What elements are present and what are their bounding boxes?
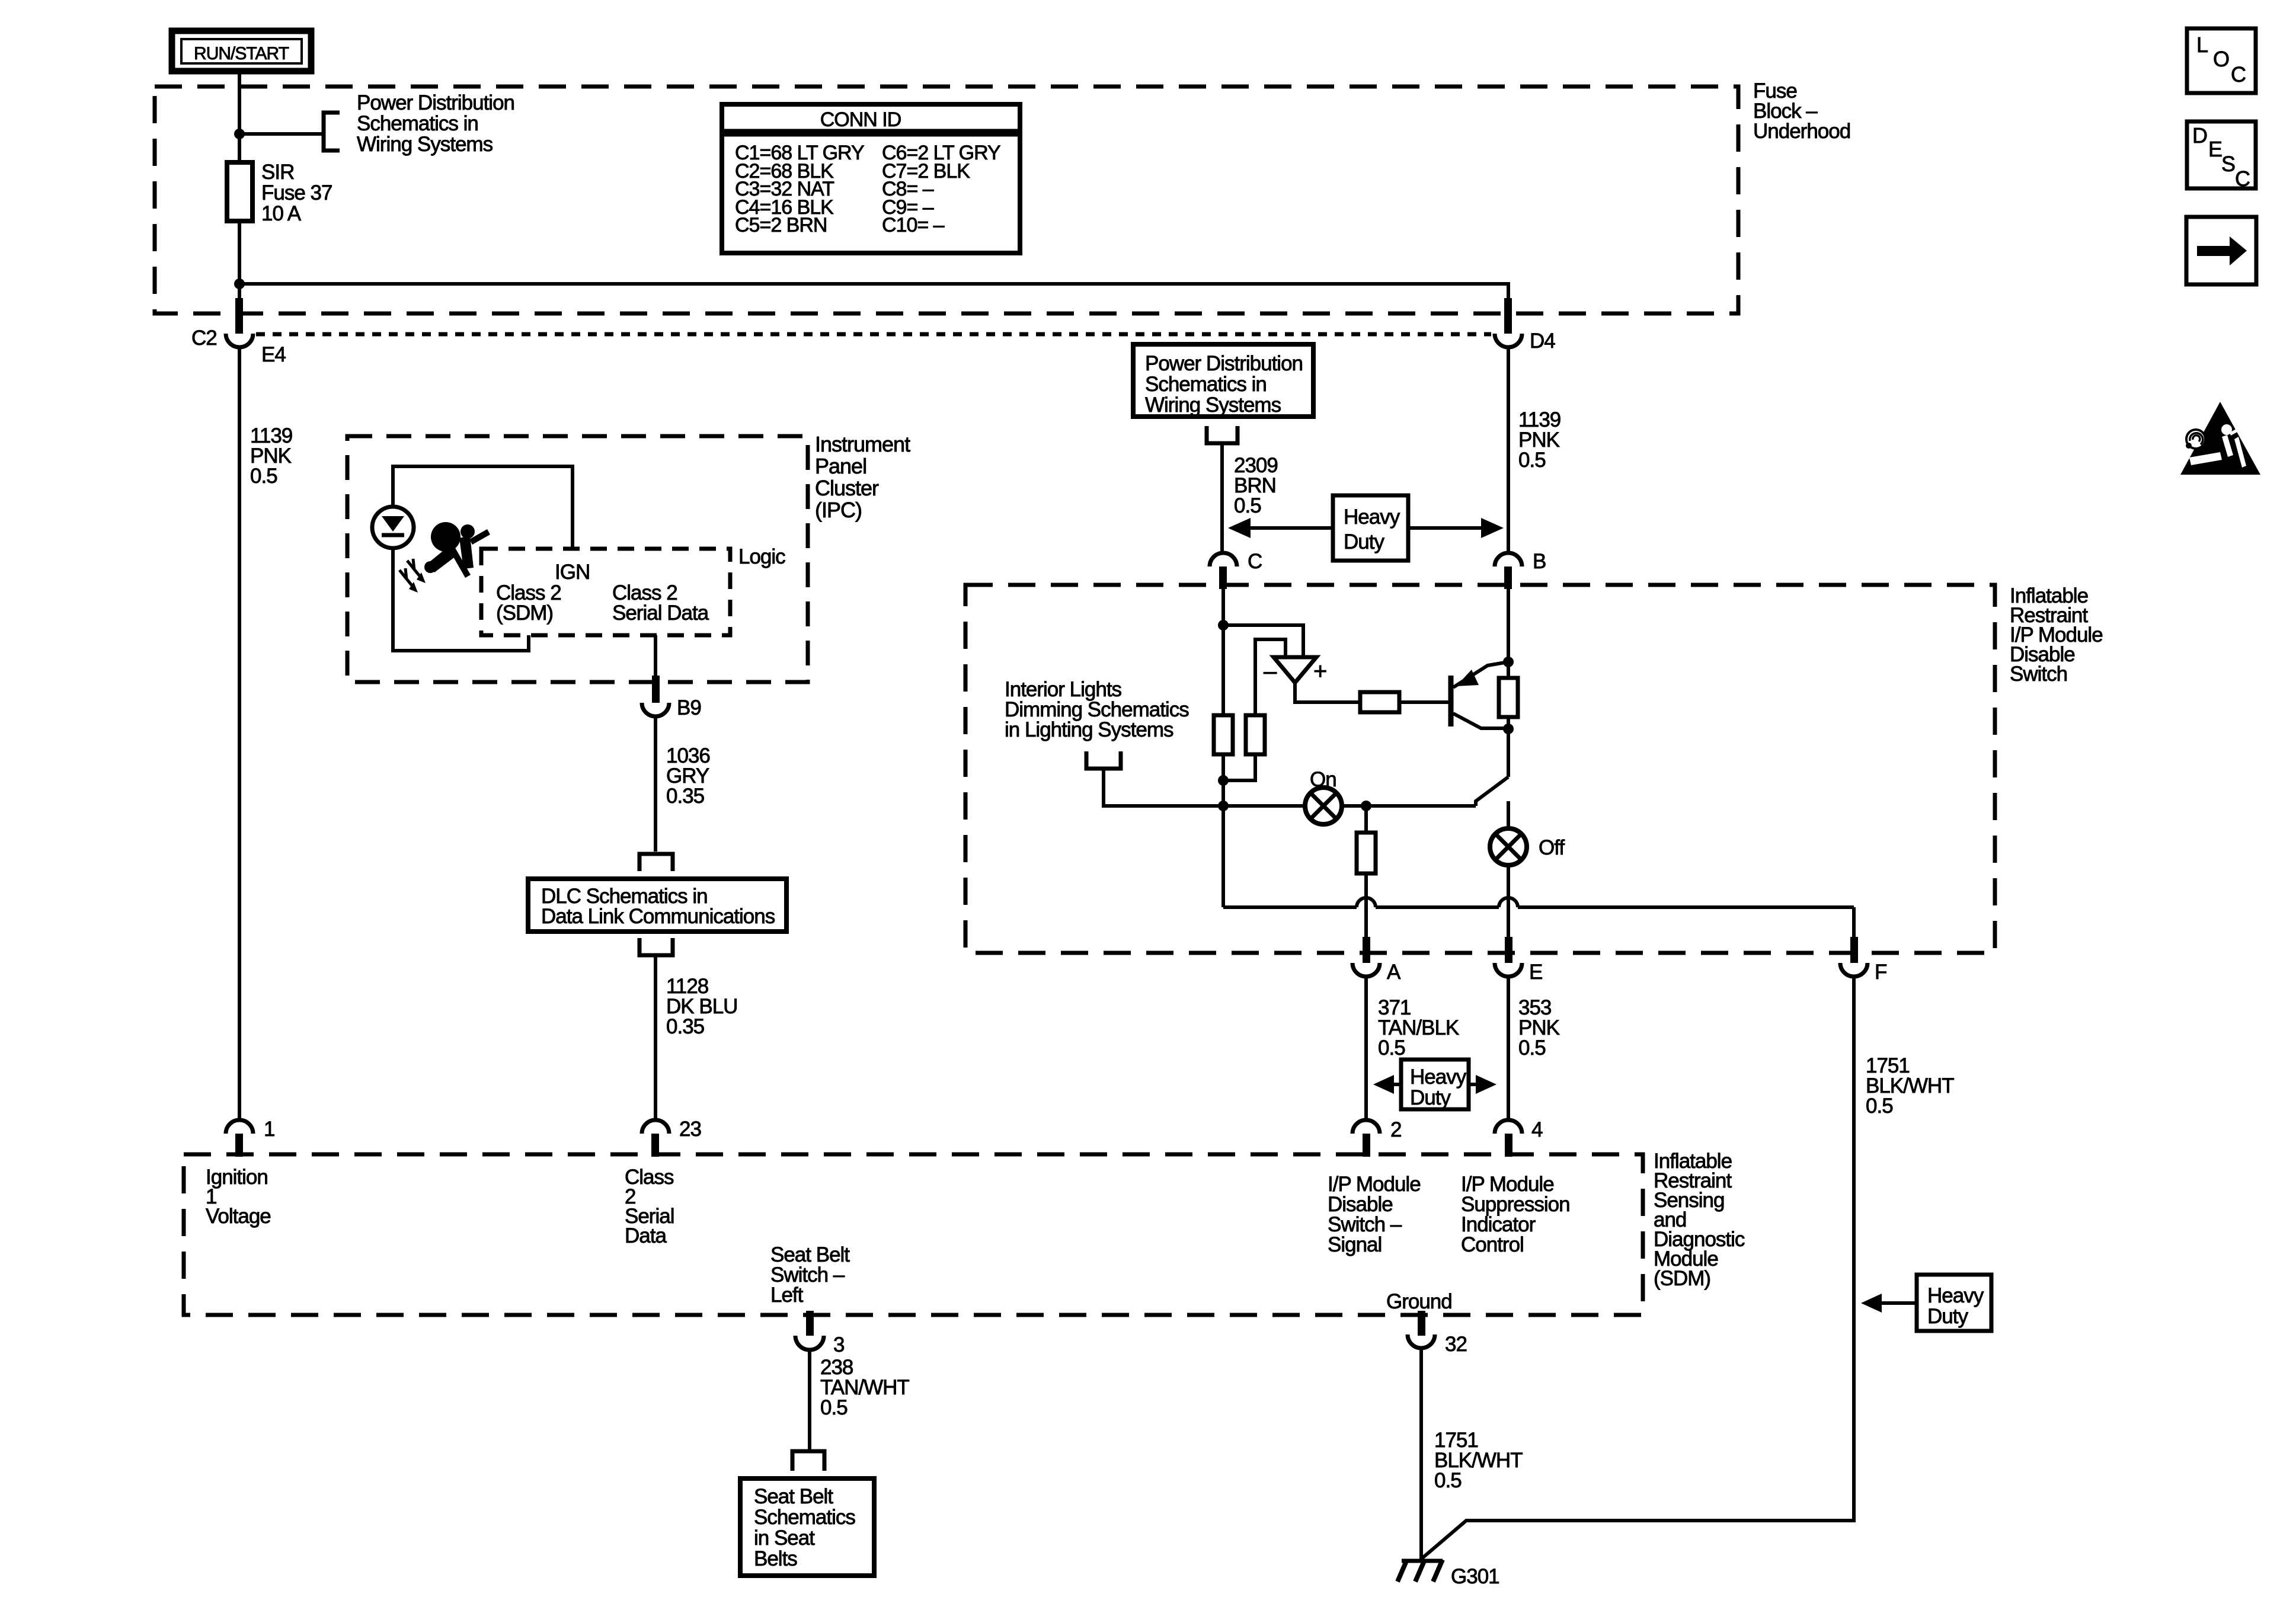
wire: fuse to connector C2 bbox=[238, 221, 241, 316]
page link bracket above seat belt box bbox=[792, 1451, 824, 1471]
svg-text:0.5: 0.5 bbox=[1518, 449, 1546, 472]
svg-text:in Lighting Systems: in Lighting Systems bbox=[1005, 718, 1173, 741]
indicator lamp Off bbox=[1490, 828, 1565, 865]
label: Interior Lights Dimming Schematics in Lighting Systems bbox=[1005, 678, 1189, 741]
wire: 1036 GRY 0.35 bbox=[654, 716, 657, 852]
svg-text:Wiring Systems: Wiring Systems bbox=[1145, 393, 1281, 417]
label: Fuse Block - Underhood bbox=[1753, 79, 1850, 143]
wire C inside switch box bbox=[1221, 589, 1225, 715]
wire: 238 TAN/WHT 0.5 bbox=[808, 1350, 811, 1451]
svg-text:in Seat: in Seat bbox=[754, 1526, 815, 1550]
resistor R2 (comparator input) bbox=[1246, 715, 1265, 754]
heavy duty callout box (upper) bbox=[1228, 495, 1504, 561]
svg-text:0.35: 0.35 bbox=[666, 785, 704, 808]
wire: connector F 1751 BLK/WHT 0.5 down to ground bbox=[1422, 977, 1854, 1558]
svg-text:0.5: 0.5 bbox=[1378, 1036, 1405, 1060]
junction On line to R5 bbox=[1361, 801, 1371, 811]
svg-text:C5=2 BRN: C5=2 BRN bbox=[735, 214, 827, 236]
svg-text:23: 23 bbox=[679, 1118, 701, 1141]
label: Instrument Panel Cluster (IPC) bbox=[815, 432, 910, 522]
wire: Off lamp to connector E bbox=[1507, 865, 1510, 939]
svg-text:Heavy: Heavy bbox=[1410, 1065, 1467, 1089]
junction collector on wire B bbox=[1503, 657, 1514, 667]
wire: R4 to switch blade bbox=[1507, 717, 1510, 777]
svg-text:O: O bbox=[2213, 47, 2229, 71]
svg-text:4: 4 bbox=[1531, 1118, 1543, 1141]
junction at feed bus bbox=[234, 279, 245, 289]
dotted connector row line C2 to D4 bbox=[256, 332, 1491, 337]
inflatable restraint I/P module disable switch dashed box bbox=[965, 585, 1995, 953]
indicator lamp On bbox=[1305, 768, 1342, 824]
wire B inside switch box bbox=[1507, 589, 1510, 678]
connector pin 23 at SDM bbox=[642, 1118, 701, 1157]
svg-text:Logic: Logic bbox=[738, 545, 785, 568]
connector C2 / E4 at fuse block output bbox=[191, 298, 286, 366]
junction C to R2 return bbox=[1218, 775, 1229, 786]
svg-text:Duty: Duty bbox=[1927, 1305, 1968, 1328]
resistor R5 (disable switch signal) bbox=[1357, 833, 1376, 873]
svg-text:(SDM): (SDM) bbox=[496, 601, 553, 625]
wire: interior lights to On lamp line bbox=[1104, 769, 1305, 806]
ground G301 bbox=[1398, 1560, 1499, 1588]
arrow to wire C bbox=[1242, 526, 1333, 530]
op-amp comparator U1 bbox=[1264, 657, 1326, 684]
resistor R3 (base drive) bbox=[1360, 692, 1399, 712]
svg-text:Schematics in: Schematics in bbox=[357, 112, 478, 135]
wire: Class 2 serial data out of logic box bbox=[654, 635, 657, 689]
wire: comparator plus input bbox=[1223, 625, 1303, 659]
wire: 1128 DK BLU 0.35 bbox=[654, 955, 657, 1121]
svg-text:Data Link Communications: Data Link Communications bbox=[541, 905, 775, 928]
wire: common return line to connector F with hops bbox=[1223, 806, 1854, 943]
svg-text:0.5: 0.5 bbox=[1234, 494, 1261, 517]
wire: R2 bottom to wire C bbox=[1223, 754, 1255, 780]
wire: R3 to transistor base bbox=[1399, 700, 1448, 704]
svg-text:0.5: 0.5 bbox=[1866, 1094, 1893, 1118]
svg-text:C: C bbox=[2231, 62, 2246, 87]
connector pin 2 at SDM bbox=[1352, 1118, 1401, 1157]
svg-text:C: C bbox=[1248, 550, 1262, 573]
svg-text:1: 1 bbox=[264, 1118, 274, 1141]
page link bracket below power distribution box bbox=[1207, 426, 1237, 443]
icon box forward arrow bbox=[2186, 217, 2256, 284]
svg-text:+: + bbox=[1313, 658, 1326, 684]
svg-text:Power Distribution: Power Distribution bbox=[1145, 352, 1303, 375]
wire: RUN/START down to junction bbox=[238, 71, 241, 162]
label: I/P Module Disable Switch - Signal bbox=[1328, 1173, 1421, 1256]
svg-text:C2: C2 bbox=[191, 327, 217, 350]
connector pin 4 at SDM bbox=[1495, 1118, 1543, 1157]
svg-text:E: E bbox=[2208, 137, 2222, 161]
svg-text:RUN/START: RUN/START bbox=[194, 44, 289, 63]
junction emitter on wire B bbox=[1503, 724, 1514, 734]
connector pin 32 below SDM box (ground) bbox=[1408, 1311, 1467, 1356]
svg-text:Schematics: Schematics bbox=[754, 1506, 855, 1529]
switch blade (module disable switch) bbox=[1476, 777, 1508, 806]
label: Power Distribution Schematics in Wiring Systems bbox=[357, 91, 514, 156]
heavy duty callout box (lower right) bbox=[1861, 1275, 1991, 1331]
page link bracket below DLC box bbox=[639, 938, 673, 955]
label: Seat Belt Switch - Left bbox=[770, 1243, 850, 1307]
svg-text:Underhood: Underhood bbox=[1753, 120, 1850, 143]
connector B at disable switch bbox=[1495, 550, 1546, 589]
airbag warning pictograph bbox=[424, 522, 490, 578]
svg-text:3: 3 bbox=[833, 1333, 844, 1356]
svg-text:IGN: IGN bbox=[555, 561, 590, 584]
svg-text:0.5: 0.5 bbox=[820, 1396, 848, 1419]
svg-text:Heavy: Heavy bbox=[1927, 1284, 1984, 1307]
svg-text:G301: G301 bbox=[1451, 1565, 1499, 1588]
junction C on lamp line bbox=[1218, 801, 1229, 811]
resistor R4 (on wire B) bbox=[1499, 678, 1518, 717]
wire: On lamp line bbox=[1342, 804, 1476, 808]
svg-text:Serial Data: Serial Data bbox=[612, 601, 709, 625]
junction C to comparator bbox=[1218, 620, 1229, 631]
CONN ID table bbox=[722, 104, 1020, 253]
heavy duty callout box (middle) bbox=[1373, 1060, 1496, 1109]
svg-text:Cluster: Cluster bbox=[815, 476, 879, 500]
page link bracket (power distribution feed) bbox=[324, 113, 340, 151]
pin label Class 2 (SDM) bbox=[496, 581, 561, 625]
page link bracket above DLC box bbox=[639, 854, 673, 871]
switch RUN/START ignition feed box bbox=[172, 31, 311, 71]
connector F at switch box bottom bbox=[1840, 937, 1886, 984]
svg-text:0.35: 0.35 bbox=[666, 1015, 704, 1038]
svg-text:L: L bbox=[2196, 33, 2208, 57]
svg-text:Fuse 37: Fuse 37 bbox=[261, 181, 332, 204]
airbag caution triangle icon bbox=[2180, 402, 2260, 475]
svg-text:Control: Control bbox=[1461, 1233, 1524, 1256]
svg-text:B: B bbox=[1533, 550, 1546, 573]
logic dashed box inside IPC bbox=[481, 549, 730, 635]
wire: R5 drop to connector A bbox=[1364, 806, 1368, 833]
connector pin 3 below SDM box bbox=[795, 1311, 844, 1356]
svg-text:A: A bbox=[1387, 961, 1401, 984]
SDM dashed box bbox=[184, 1154, 1643, 1315]
label: Inflatable Restraint Sensing and Diagnostic Module (SDM) bbox=[1654, 1150, 1745, 1290]
svg-text:F: F bbox=[1875, 961, 1886, 984]
svg-text:S: S bbox=[2221, 152, 2235, 176]
LED airbag indicator lamp bbox=[372, 507, 426, 593]
pin label Class 2 Serial Data bbox=[612, 581, 709, 625]
wire: 1139 PNK 0.5 (left, C2 to pin 1) bbox=[238, 348, 241, 1121]
page link bracket interior lights bbox=[1086, 751, 1121, 769]
label: I/P Module Suppression Indicator Control bbox=[1461, 1173, 1570, 1256]
wire: branch to page bracket bbox=[239, 132, 322, 136]
svg-text:Belts: Belts bbox=[754, 1547, 797, 1570]
svg-text:Panel: Panel bbox=[815, 454, 866, 478]
svg-text:Wiring Systems: Wiring Systems bbox=[357, 133, 493, 156]
svg-text:C: C bbox=[2235, 167, 2250, 191]
svg-text:Left: Left bbox=[770, 1284, 804, 1307]
wire: comparator minus input from R2 bbox=[1255, 639, 1285, 715]
svg-text:CONN ID: CONN ID bbox=[820, 108, 901, 131]
svg-text:Voltage: Voltage bbox=[206, 1205, 271, 1228]
label: Class 2 Serial Data (SDM pin 23) bbox=[625, 1166, 674, 1247]
fuse F37: SIR Fuse 37 10 A bbox=[227, 162, 252, 221]
wire: feed bus to D4 drop bbox=[239, 284, 1508, 316]
wire: 1139 PNK 0.5 (right, D4 to B) bbox=[1507, 348, 1510, 553]
connector D4 bbox=[1495, 298, 1555, 353]
svg-text:10 A: 10 A bbox=[261, 202, 302, 225]
svg-text:D4: D4 bbox=[1530, 329, 1555, 353]
connector A at switch box bottom bbox=[1352, 937, 1401, 984]
svg-text:32: 32 bbox=[1445, 1333, 1467, 1356]
svg-text:–: – bbox=[1264, 658, 1277, 684]
label: Inflatable Restraint I/P Module Disable Switch bbox=[2010, 584, 2103, 686]
svg-text:Ground: Ground bbox=[1386, 1290, 1452, 1313]
wire: LED loop bottom (LED cathode to Class 2 SDM pin) bbox=[393, 548, 529, 651]
svg-text:(SDM): (SDM) bbox=[1654, 1267, 1710, 1290]
wire: 1751 BLK/WHT 0.5 to ground bbox=[1419, 1349, 1423, 1561]
icon box LOC bbox=[2187, 28, 2256, 93]
transistor Q1 (PNP) bbox=[1451, 662, 1508, 728]
connector pin 1 at SDM bbox=[226, 1118, 274, 1157]
wire: Off lamp feed bbox=[1507, 801, 1510, 828]
svg-text:Signal: Signal bbox=[1328, 1233, 1382, 1256]
connector C at disable switch bbox=[1210, 550, 1262, 589]
svg-text:0.5: 0.5 bbox=[1434, 1469, 1462, 1492]
svg-text:E: E bbox=[1529, 961, 1542, 984]
svg-text:0.5: 0.5 bbox=[1518, 1036, 1546, 1060]
svg-text:E4: E4 bbox=[261, 343, 286, 366]
svg-text:D: D bbox=[2192, 123, 2207, 148]
svg-text:2: 2 bbox=[1390, 1118, 1401, 1141]
resistor R1 (on wire C) bbox=[1214, 715, 1233, 754]
wire: 2309 BRN 0.5 bbox=[1220, 443, 1224, 553]
connector B9 at IPC bottom bbox=[642, 676, 701, 719]
svg-text:Seat Belt: Seat Belt bbox=[754, 1485, 833, 1508]
svg-text:Schematics in: Schematics in bbox=[1145, 373, 1267, 396]
svg-text:SIR: SIR bbox=[261, 161, 294, 184]
svg-text:Switch: Switch bbox=[2010, 663, 2067, 686]
wire: 353 PNK 0.5 bbox=[1507, 977, 1510, 1121]
fuse block underhood dashed outline bbox=[155, 87, 1738, 313]
svg-text:Duty: Duty bbox=[1410, 1086, 1451, 1109]
svg-text:Heavy: Heavy bbox=[1344, 505, 1400, 529]
icon box DESC bbox=[2187, 121, 2256, 191]
power distribution schematics box (center) bbox=[1133, 344, 1313, 417]
svg-text:Instrument: Instrument bbox=[815, 432, 910, 456]
svg-text:0.5: 0.5 bbox=[250, 465, 277, 488]
wire: 371 TAN/BLK 0.5 bbox=[1364, 977, 1368, 1121]
svg-text:B9: B9 bbox=[677, 696, 701, 719]
svg-text:Data: Data bbox=[625, 1224, 667, 1247]
seat belt schematics box bbox=[740, 1478, 874, 1576]
svg-text:Power Distribution: Power Distribution bbox=[357, 91, 514, 114]
svg-text:C10= –: C10= – bbox=[882, 214, 945, 236]
svg-text:Off: Off bbox=[1539, 836, 1565, 859]
wire: comparator output to base resistor bbox=[1295, 683, 1360, 702]
instrument panel cluster IPC dashed box bbox=[347, 436, 808, 682]
svg-text:(IPC): (IPC) bbox=[815, 498, 862, 522]
junction at power distribution branch bbox=[234, 129, 245, 139]
svg-text:On: On bbox=[1310, 768, 1336, 791]
svg-text:Duty: Duty bbox=[1344, 530, 1384, 553]
arrow to wire B bbox=[1408, 526, 1489, 530]
connector E at switch box bottom bbox=[1495, 937, 1542, 984]
DLC schematics box bbox=[528, 879, 786, 932]
label: Ignition 1 Voltage bbox=[206, 1166, 271, 1228]
wire: LED loop top (LED anode to IGN pin) bbox=[393, 466, 573, 549]
